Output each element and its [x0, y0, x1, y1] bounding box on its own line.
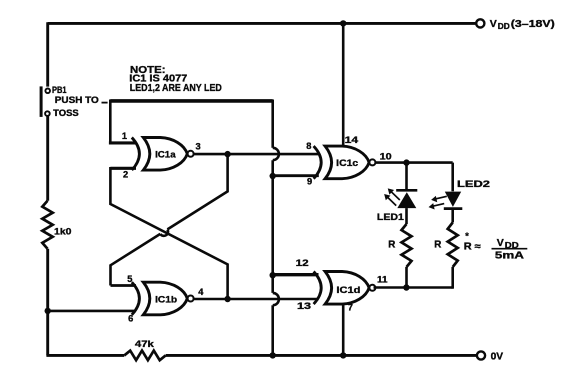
- node bus / pin9 tap: [270, 173, 276, 179]
- node output10 / LED1 branch: [403, 159, 409, 165]
- node bus / pin12 tap: [270, 272, 276, 278]
- svg-text:12: 12: [296, 258, 309, 268]
- wire bus hop over pin13 line: [273, 293, 279, 305]
- xnor gate IC1b: [132, 282, 140, 315]
- wire pin1 stub: [109, 141, 136, 144]
- wire R1 to node 11: [405, 267, 408, 288]
- wire bottom 0V rail right: [166, 354, 477, 357]
- wire output11 line: [374, 286, 453, 289]
- wire pin9 stub: [273, 174, 319, 177]
- svg-text:PB1: PB1: [52, 85, 67, 95]
- terminal 0V: [477, 351, 485, 359]
- svg-text:DD: DD: [498, 22, 510, 31]
- svg-text:PUSH TO: PUSH TO: [55, 95, 99, 105]
- wire LED1 branch top: [405, 163, 408, 190]
- resistor 47k: [124, 351, 165, 361]
- wire bus vertical upper: [271, 100, 274, 148]
- svg-text:TOSS: TOSS: [53, 108, 79, 118]
- wire note-line horizontal: [110, 99, 272, 103]
- terminal VDD: [476, 19, 484, 27]
- node top-rail / pin-14 junction: [340, 20, 346, 26]
- resistor R (LED2): [448, 223, 458, 268]
- node output3 junction: [224, 151, 230, 157]
- svg-text:8: 8: [306, 141, 311, 151]
- node bottom rail / pin7 junction: [340, 352, 346, 358]
- wire pin7 to bottom rail: [342, 304, 345, 355]
- wire bus hop over pin8 line: [273, 148, 279, 160]
- resistor 1k0: [42, 201, 52, 249]
- wire output4 line to pin13: [194, 298, 319, 301]
- push button PB1: [45, 89, 50, 94]
- svg-text:47k: 47k: [135, 339, 155, 350]
- svg-text:*: *: [465, 231, 469, 241]
- wire pin5 stub: [111, 284, 137, 287]
- svg-text:5mA: 5mA: [495, 251, 524, 262]
- LED1 emission arrows: [385, 189, 400, 206]
- svg-text:10: 10: [380, 151, 392, 161]
- wire top VDD rail: [48, 22, 476, 25]
- wire bottom 0V rail left: [46, 354, 124, 357]
- svg-text:7: 7: [348, 303, 353, 313]
- wire pin12 stub: [273, 273, 319, 276]
- svg-text:R: R: [388, 240, 395, 251]
- svg-text:3: 3: [196, 141, 201, 151]
- svg-text:LED1: LED1: [377, 212, 405, 223]
- LED2 emission arrows: [429, 196, 447, 209]
- resistor R (LED1): [402, 224, 412, 267]
- wire pin1 drop vertical: [109, 100, 112, 143]
- svg-text:IC1d: IC1d: [336, 285, 360, 296]
- wire feedback D-down (out3 to pin5): [167, 154, 227, 229]
- svg-text:1: 1: [122, 131, 127, 141]
- LED2 (cathode down): [445, 192, 461, 207]
- wire LED1 to R: [405, 208, 408, 224]
- wire output10 line: [376, 161, 453, 164]
- node output4 junction: [224, 296, 230, 302]
- svg-text:LED2: LED2: [457, 179, 490, 190]
- svg-text:IC1a: IC1a: [155, 149, 176, 160]
- svg-text:13: 13: [297, 301, 311, 311]
- wire bus vertical middle: [271, 160, 274, 293]
- svg-text:IC1c: IC1c: [336, 158, 359, 169]
- svg-text:IC1b: IC1b: [155, 294, 177, 305]
- wire left rail middle: [46, 116, 49, 201]
- xnor gate IC1a: [132, 138, 140, 171]
- svg-text:14: 14: [345, 135, 360, 145]
- svg-text:11: 11: [377, 274, 388, 284]
- svg-text:0V: 0V: [491, 352, 504, 363]
- svg-text:R: R: [434, 240, 441, 251]
- wire LED2 to R: [451, 209, 454, 223]
- wire pin6 line from left rail: [48, 310, 136, 313]
- svg-text:(3–18V): (3–18V): [511, 19, 555, 30]
- wire R2 to node 11: [451, 267, 454, 289]
- svg-text:V: V: [497, 237, 504, 249]
- wire output3 line to pin8: [194, 153, 319, 156]
- wire bus vertical lower: [271, 305, 274, 355]
- wire pin2 stub: [110, 167, 136, 170]
- xnor gate IC1c: [314, 146, 322, 179]
- svg-text:R ≈: R ≈: [464, 241, 482, 252]
- wire left rail upper (to PB1): [46, 22, 49, 86]
- svg-text:2: 2: [123, 169, 128, 179]
- node output11 / LED1 branch: [403, 284, 409, 290]
- LED1 (cathode up): [396, 189, 417, 192]
- svg-text:LED1,2 ARE ANY LED: LED1,2 ARE ANY LED: [130, 83, 222, 94]
- svg-text:V: V: [490, 18, 497, 30]
- wire hop at X crossing: [160, 229, 168, 235]
- wire left rail lower: [46, 249, 49, 356]
- xnor gate IC1d: [314, 272, 322, 305]
- svg-text:1k0: 1k0: [54, 227, 72, 238]
- node bottom rail / bus junction: [270, 352, 276, 358]
- wire dash after PUSH TO: [102, 102, 108, 104]
- wire pin14 from top rail: [342, 23, 345, 146]
- wire LED2 branch top: [451, 163, 454, 192]
- node left rail / pin6 tap: [45, 308, 51, 314]
- wire feedback D-up (out4 to pin2): [110, 167, 227, 299]
- svg-text:4: 4: [198, 287, 204, 297]
- svg-text:9: 9: [307, 177, 312, 187]
